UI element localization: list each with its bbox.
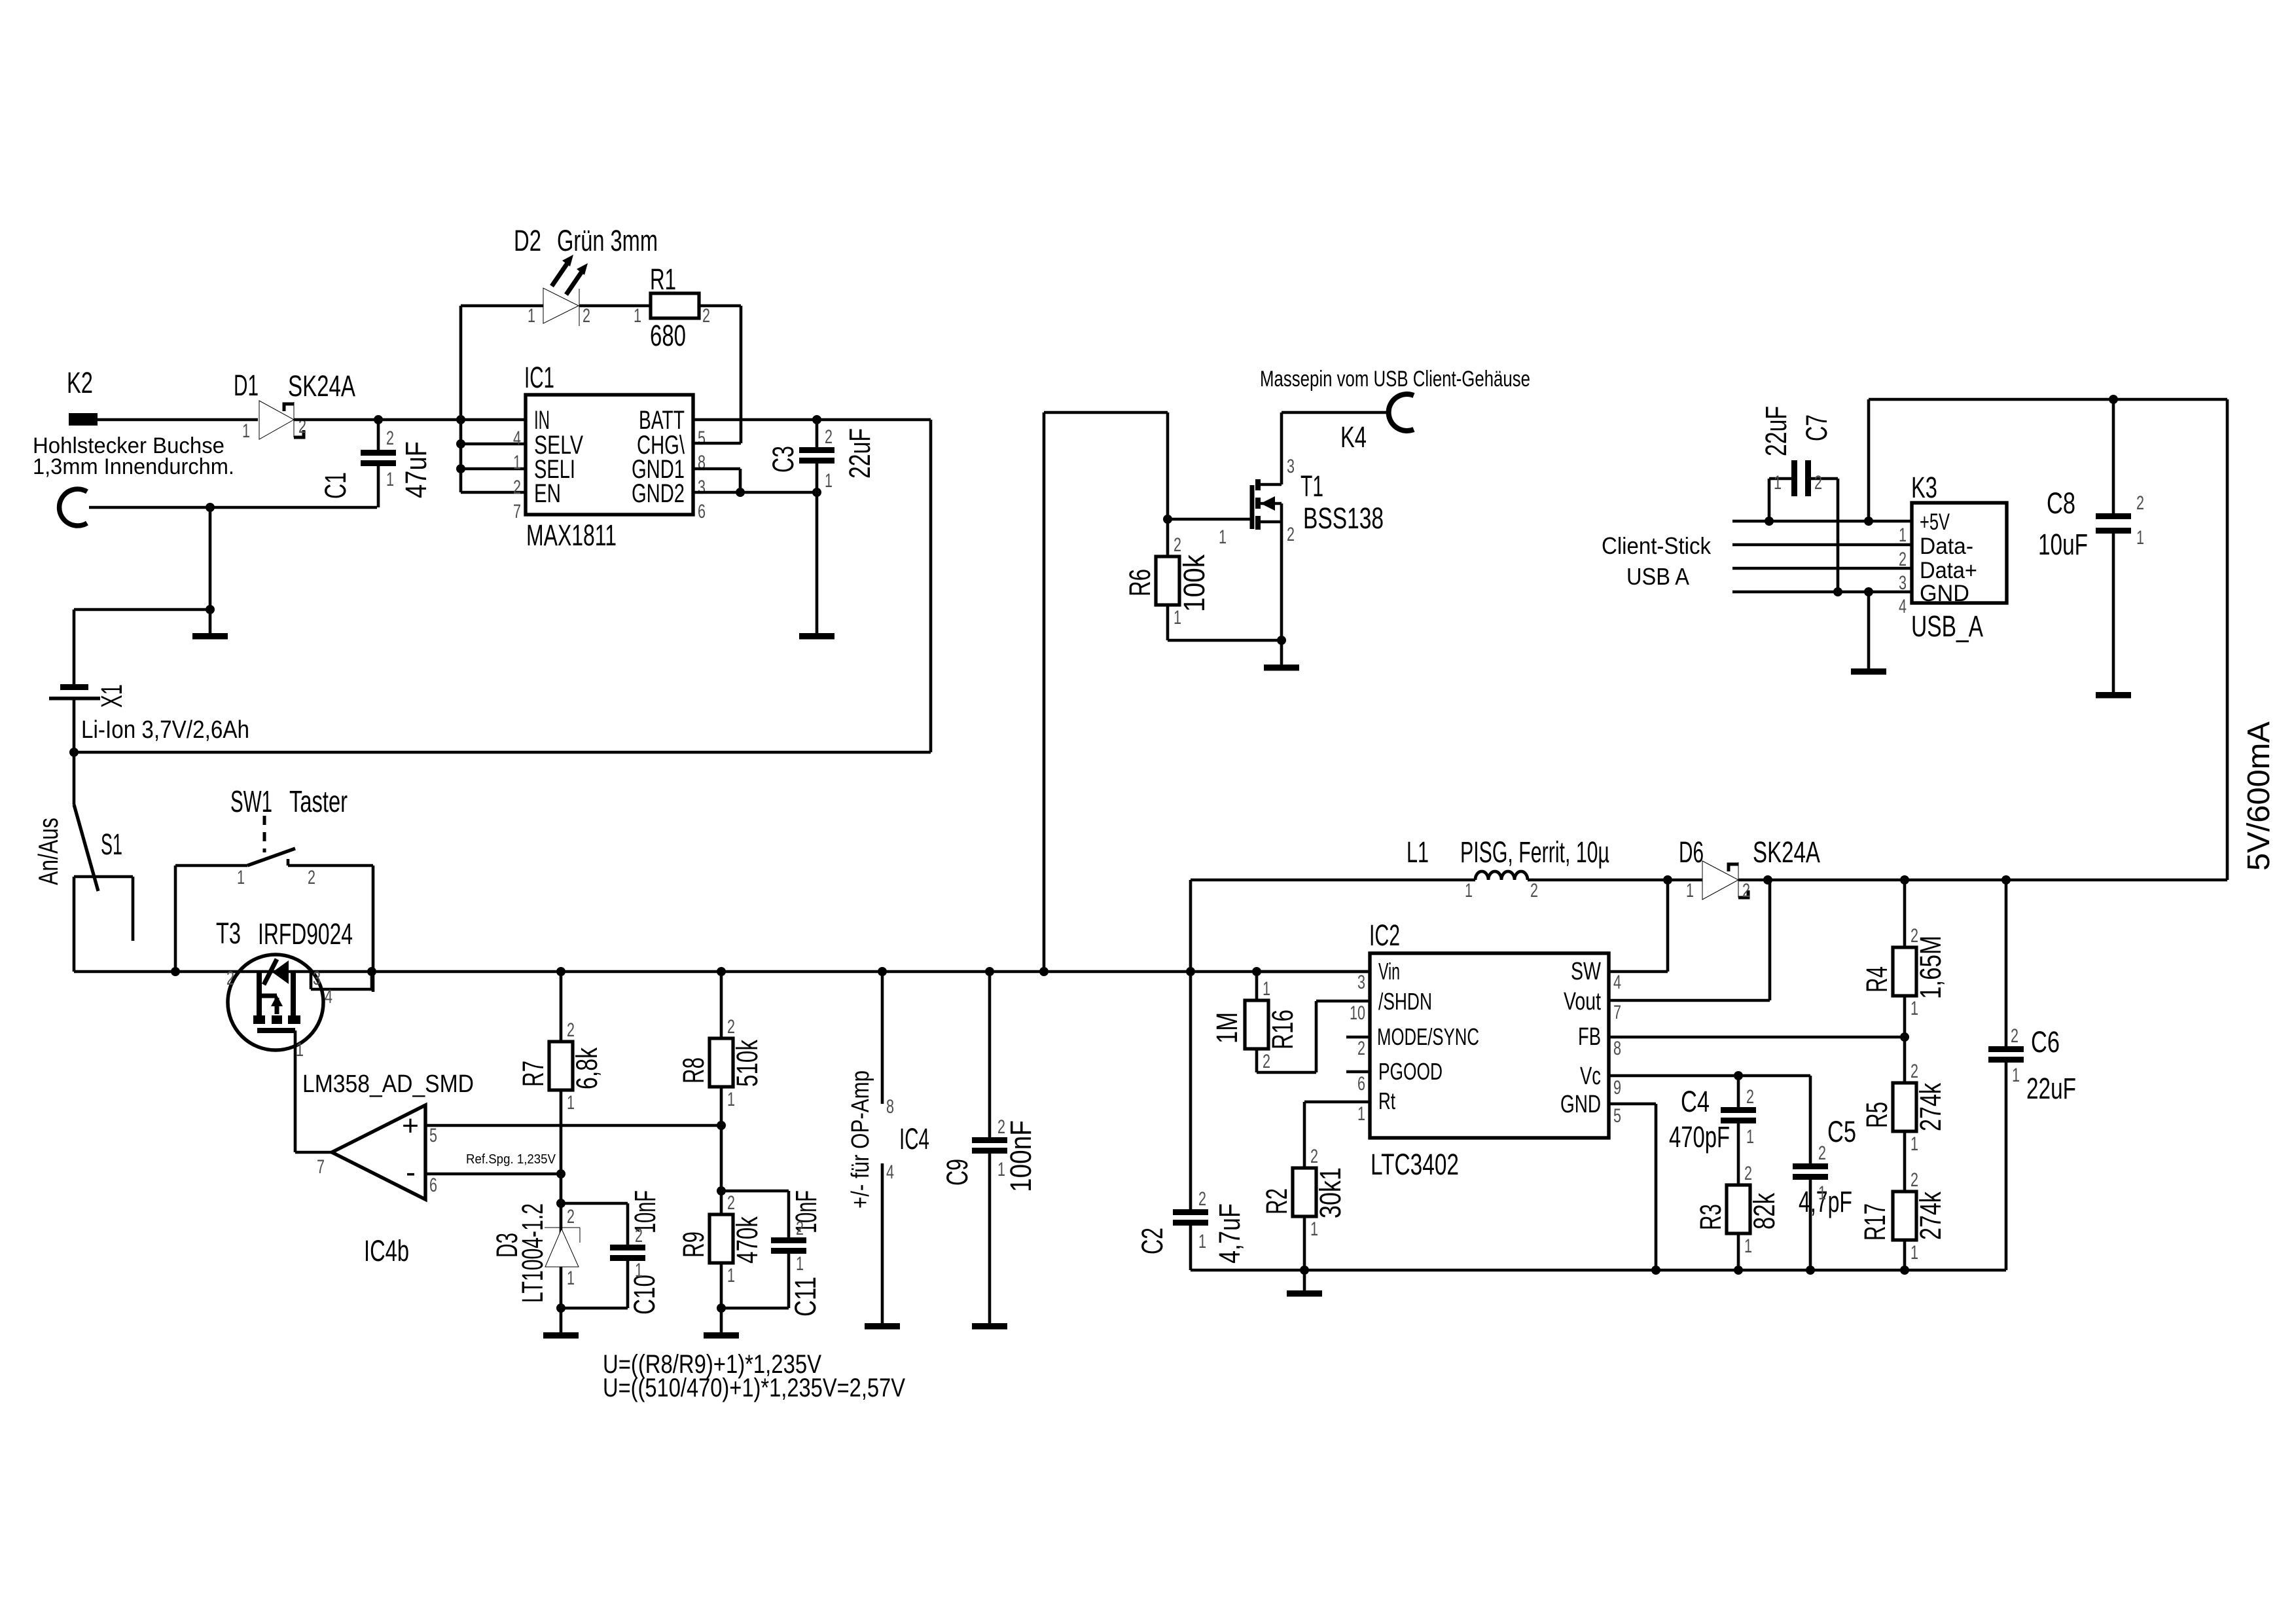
svg-text:GND2: GND2 — [632, 479, 685, 508]
svg-text:1: 1 — [1219, 526, 1227, 548]
svg-text:2: 2 — [1530, 880, 1538, 902]
junction T1 source/R6 — [1277, 636, 1286, 645]
svg-text:Massepin vom USB Client-Gehäus: Massepin vom USB Client-Gehäuse — [1260, 367, 1530, 392]
svg-text:Client-Stick: Client-Stick — [1602, 532, 1712, 559]
svg-text:2: 2 — [997, 1116, 1005, 1138]
svg-text:R6: R6 — [1123, 569, 1157, 596]
junction R9/C11 bottom — [717, 1304, 726, 1313]
wire SW1 left down — [174, 866, 177, 972]
wire jog up to SHDN — [1315, 1001, 1318, 1072]
junction rail IC2/C2 — [1186, 967, 1195, 976]
svg-text:/SHDN: /SHDN — [1378, 988, 1432, 1015]
wire R17 bottom — [1903, 1240, 1907, 1270]
wire SELI pin — [461, 467, 526, 471]
wire output to +5V pin — [1867, 399, 1871, 521]
svg-text:SK24A: SK24A — [1753, 835, 1820, 869]
svg-text:K3: K3 — [1911, 471, 1937, 504]
svg-text:Ref.Spg. 1,235V: Ref.Spg. 1,235V — [466, 1152, 556, 1167]
wire EN pin — [461, 491, 526, 494]
junction GND bottom rail — [1651, 1266, 1660, 1275]
junction battery / output rail — [69, 748, 79, 757]
wire PGOOD stub — [1346, 1070, 1370, 1074]
svg-text:+5V: +5V — [1920, 509, 1950, 535]
wire Vc to C5 — [1809, 1076, 1812, 1163]
junction Vout riser — [1763, 875, 1772, 884]
wire CHG pin — [693, 442, 741, 445]
svg-text:FB: FB — [1578, 1023, 1601, 1051]
wire output rail right — [2226, 399, 2229, 880]
svg-text:D2: D2 — [514, 224, 541, 257]
wire op-amp output — [295, 1151, 332, 1154]
svg-text:R8: R8 — [677, 1057, 710, 1084]
junction ground node — [206, 605, 215, 614]
svg-text:1: 1 — [825, 470, 833, 492]
svg-text:C8: C8 — [2047, 486, 2075, 520]
svg-text:1: 1 — [567, 1267, 575, 1289]
svg-text:D6: D6 — [1679, 835, 1704, 869]
svg-text:510k: 510k — [730, 1040, 764, 1087]
S1 blade — [74, 805, 98, 891]
wire CHG riser — [740, 306, 743, 443]
wire IN pin — [461, 418, 526, 422]
junction gate/R6 — [1163, 515, 1172, 524]
svg-text:2: 2 — [1910, 1061, 1918, 1082]
svg-text:1: 1 — [1310, 1218, 1318, 1240]
wire GND pin — [1609, 1103, 1656, 1106]
junction IN tie — [456, 415, 465, 424]
resistor R7 — [560, 972, 563, 1042]
svg-text:2: 2 — [2136, 492, 2144, 514]
svg-text:2: 2 — [386, 428, 394, 449]
svg-text:2: 2 — [1357, 1038, 1365, 1059]
svg-text:R7: R7 — [516, 1061, 550, 1087]
svg-text:Li-Ion 3,7V/2,6Ah: Li-Ion 3,7V/2,6Ah — [81, 716, 249, 744]
wire SW riser — [1666, 880, 1670, 972]
svg-text:10uF: 10uF — [2038, 528, 2088, 561]
svg-text:Data-: Data- — [1920, 534, 1973, 559]
svg-text:2: 2 — [1910, 1169, 1918, 1191]
svg-text:1,3mm Innendurchm.: 1,3mm Innendurchm. — [33, 454, 234, 479]
svg-text:2: 2 — [1310, 1146, 1318, 1167]
T1 gate bar — [1250, 485, 1255, 529]
svg-text:1: 1 — [1686, 880, 1694, 902]
wire down to gate node — [1166, 412, 1170, 519]
wire IC4 pin8 — [881, 972, 884, 1104]
wire C3 ground stem — [816, 492, 819, 633]
svg-text:22uF: 22uF — [2026, 1072, 2076, 1105]
svg-text:IC1: IC1 — [524, 361, 554, 394]
svg-text:EN: EN — [534, 479, 561, 508]
svg-text:4,7uF: 4,7uF — [1213, 1203, 1246, 1264]
wire IC4 pin4 — [881, 1163, 884, 1323]
svg-text:470pF: 470pF — [1669, 1120, 1730, 1154]
wire T3 pin3 jog down — [310, 972, 313, 989]
svg-text:Vc: Vc — [1580, 1063, 1601, 1090]
svg-text:LT1004-1.2: LT1004-1.2 — [516, 1203, 549, 1303]
junction R4 top — [1900, 875, 1909, 884]
wire K2 pad to D1 anode — [97, 418, 258, 422]
svg-text:1: 1 — [1910, 1133, 1918, 1155]
capacitor C11 — [721, 1190, 789, 1193]
wire BATT riser — [929, 420, 933, 752]
junction K3 ground — [1864, 587, 1873, 596]
svg-text:An/Aus: An/Aus — [33, 818, 63, 885]
junction rail R8 — [717, 967, 726, 976]
wire jack return to C1 — [89, 506, 377, 509]
wire R5 to R17 — [1903, 1131, 1907, 1192]
svg-text:2: 2 — [727, 1192, 735, 1214]
wire D2 to R1 — [579, 304, 651, 308]
resistor R1 — [651, 293, 699, 318]
junction C3 top — [812, 415, 821, 424]
svg-text:USB_A: USB_A — [1911, 610, 1983, 643]
junction FB/R4/R5 — [1900, 1032, 1909, 1042]
svg-text:274k: 274k — [1914, 1192, 1947, 1240]
junction C7 right — [1833, 587, 1842, 596]
svg-text:1: 1 — [1198, 1231, 1206, 1252]
resistor R6 — [1166, 519, 1170, 556]
svg-text:R2: R2 — [1260, 1188, 1293, 1214]
svg-text:R4: R4 — [1860, 966, 1893, 993]
svg-text:3: 3 — [313, 968, 321, 989]
svg-text:MODE/SYNC: MODE/SYNC — [1377, 1023, 1479, 1050]
wire Vc — [1609, 1074, 1810, 1078]
svg-text:5: 5 — [1613, 1105, 1621, 1127]
wire T1 drain up — [1280, 412, 1283, 484]
wire Vout pin — [1609, 999, 1770, 1002]
svg-text:Vout: Vout — [1564, 988, 1601, 1015]
wire R7 to ground node — [560, 1090, 563, 1308]
svg-text:+: + — [402, 1110, 419, 1142]
wire T3 gate to op-amp — [294, 1030, 297, 1152]
svg-text:3: 3 — [1357, 972, 1365, 993]
wire R6 bottom — [1166, 605, 1170, 640]
capacitor C10 — [561, 1202, 628, 1205]
wire GND1 to GND2 — [739, 469, 742, 492]
svg-text:LTC3402: LTC3402 — [1371, 1148, 1459, 1181]
wire S1 to rail — [73, 877, 76, 972]
svg-text:5: 5 — [429, 1125, 437, 1146]
svg-text:6,8k: 6,8k — [570, 1048, 603, 1089]
svg-text:2: 2 — [1263, 1051, 1270, 1072]
svg-text:SW1: SW1 — [230, 784, 272, 818]
IC IC1 MAX1811 box — [526, 395, 693, 515]
svg-text:274k: 274k — [1914, 1083, 1947, 1131]
wire ground to battery X1 — [73, 610, 76, 685]
wire R8 to R9 — [720, 1087, 723, 1214]
LED D2 — [543, 288, 579, 323]
svg-text:2: 2 — [567, 1206, 575, 1228]
svg-text:2: 2 — [567, 1019, 575, 1041]
svg-text:1: 1 — [296, 1039, 304, 1061]
junction SELI tie — [456, 464, 465, 473]
svg-text:2: 2 — [2011, 1025, 2018, 1047]
svg-text:4: 4 — [1899, 596, 1907, 617]
junction R17 bottom rail — [1900, 1266, 1909, 1275]
capacitor C1 — [377, 420, 380, 450]
wire D1 cathode to C1 node — [294, 418, 378, 422]
junction rail SW1/T3 — [367, 967, 376, 976]
svg-text:C3: C3 — [766, 446, 800, 473]
svg-text:1: 1 — [1899, 524, 1907, 546]
svg-text:1: 1 — [1818, 1182, 1826, 1204]
wire Vout riser — [1768, 880, 1772, 1000]
IC K3 USB_A box — [1912, 503, 2007, 603]
junction C6 top — [2001, 875, 2011, 884]
wire R6 to T1 source — [1168, 639, 1282, 642]
wire T3 pin3 jog right — [311, 988, 372, 991]
wire ground stem R2 — [1303, 1270, 1306, 1290]
wire GND1 pin — [693, 467, 740, 471]
svg-text:7: 7 — [1613, 1002, 1621, 1023]
wire GND2 to C3 — [693, 491, 817, 494]
svg-text:1M: 1M — [1210, 1012, 1244, 1044]
capacitor C4 — [1737, 1076, 1740, 1107]
wire to ground D3 — [560, 1308, 563, 1332]
wire output top — [1869, 398, 2227, 401]
svg-text:10nF: 10nF — [628, 1190, 662, 1233]
wire Data+ stub — [1732, 567, 1912, 570]
jack K2 contact arc — [60, 489, 87, 526]
svg-text:4: 4 — [325, 986, 332, 1008]
wire gate node to T1 gate — [1168, 518, 1252, 521]
svg-text:10: 10 — [1350, 1002, 1365, 1024]
wire R3 bottom — [1737, 1233, 1740, 1270]
svg-text:R17: R17 — [1858, 1203, 1892, 1241]
connector K2 pad — [69, 413, 98, 426]
resistor R5 — [1893, 1083, 1916, 1131]
capacitor C8 — [2112, 399, 2115, 513]
wire R16 bottom — [1255, 1049, 1259, 1072]
wire FB to divider — [1609, 1036, 1905, 1039]
wire down to ground node — [209, 507, 212, 610]
svg-text:1: 1 — [386, 469, 394, 490]
svg-text:X1: X1 — [95, 684, 128, 708]
wire to SHDN pin — [1316, 1000, 1370, 1003]
svg-text:R5: R5 — [1860, 1102, 1893, 1128]
S1 contact top — [74, 875, 133, 879]
resistor R9 — [709, 1214, 733, 1263]
svg-text:1: 1 — [513, 452, 521, 473]
svg-text:22uF: 22uF — [843, 428, 876, 479]
junction C4 top — [1734, 1071, 1743, 1080]
wire IN/SELV/SELI/EN tie — [459, 306, 463, 492]
svg-text:Rt: Rt — [1378, 1087, 1395, 1114]
svg-text:1: 1 — [635, 1260, 643, 1281]
svg-text:1: 1 — [1174, 607, 1181, 629]
IC IC2 LTC3402 box — [1370, 953, 1609, 1138]
svg-text:2: 2 — [1198, 1188, 1206, 1210]
junction rail IC4 — [878, 967, 887, 976]
junction - input / D3 — [556, 1169, 565, 1178]
junction + input / R8 R9 — [717, 1121, 726, 1130]
svg-text:U=((510/470)+1)*1,235V=2,57V: U=((510/470)+1)*1,235V=2,57V — [603, 1374, 905, 1402]
junction rail S1 — [171, 967, 180, 976]
svg-text:22uF: 22uF — [1759, 406, 1793, 456]
svg-text:SW: SW — [1571, 958, 1601, 985]
svg-text:C5: C5 — [1827, 1115, 1856, 1148]
svg-text:1: 1 — [242, 420, 250, 442]
junction jack return / ground — [206, 503, 215, 512]
svg-text:100nF: 100nF — [1004, 1120, 1037, 1192]
svg-text:2: 2 — [1174, 534, 1181, 556]
svg-text:2: 2 — [513, 477, 521, 498]
wire to IC1 branch node — [378, 418, 461, 422]
wire Vin to L1 — [1191, 879, 1475, 882]
connector K4 massepin arc — [1389, 394, 1414, 431]
svg-text:USB A: USB A — [1626, 563, 1689, 590]
wire MODE/SYNC stub — [1346, 1036, 1370, 1039]
junction +5V riser — [1864, 517, 1873, 526]
junction C7 left — [1765, 517, 1774, 526]
svg-text:R3: R3 — [1694, 1204, 1727, 1230]
SW1 right contact — [288, 864, 373, 867]
svg-text:7: 7 — [317, 1156, 325, 1178]
svg-text:Data+: Data+ — [1920, 558, 1977, 583]
wire R2 to bottom rail — [1303, 1216, 1306, 1270]
wire battery to S1 — [73, 700, 76, 805]
wire Rt pin — [1304, 1101, 1370, 1104]
svg-text:IC2: IC2 — [1369, 919, 1400, 952]
junction rail R16 — [1252, 967, 1261, 976]
svg-text:1: 1 — [528, 305, 535, 327]
wire L1 to D6 — [1528, 879, 1702, 882]
svg-text:R9: R9 — [677, 1231, 710, 1258]
svg-text:1: 1 — [1744, 1235, 1752, 1257]
wire GND down — [1655, 1104, 1658, 1270]
wire T3 pin3 jog up — [370, 972, 374, 989]
svg-text:Taster: Taster — [289, 784, 348, 818]
svg-text:6: 6 — [1357, 1073, 1365, 1095]
svg-text:R16: R16 — [1266, 1010, 1299, 1049]
svg-text:1: 1 — [1910, 1242, 1918, 1264]
SW1 left contact — [175, 864, 247, 867]
svg-text:680: 680 — [650, 319, 686, 352]
junction D3/C10 bottom — [556, 1304, 565, 1313]
svg-text:1: 1 — [237, 867, 245, 888]
svg-text:PISG, Ferrit, 10µ: PISG, Ferrit, 10µ — [1460, 835, 1609, 869]
junction SW node — [1663, 875, 1672, 884]
capacitor C6 — [2005, 880, 2008, 1046]
svg-text:C4: C4 — [1681, 1085, 1710, 1118]
wire rail to T1 branch riser — [1043, 412, 1046, 972]
wire Rt to R2 — [1303, 1102, 1306, 1168]
wire LED branch left — [461, 304, 543, 308]
wire SW1 right down — [372, 866, 375, 992]
svg-text:2: 2 — [1744, 1163, 1752, 1184]
svg-text:82k: 82k — [1748, 1193, 1781, 1230]
svg-text:C7: C7 — [1800, 414, 1833, 441]
svg-text:R1: R1 — [650, 263, 676, 296]
junction rail T1 branch — [1039, 967, 1049, 976]
wire T1 branch top — [1044, 411, 1168, 414]
resistor R3 — [1727, 1185, 1750, 1233]
svg-text:C2: C2 — [1136, 1228, 1169, 1254]
battery X1 — [60, 684, 88, 690]
svg-text:2: 2 — [1746, 1086, 1754, 1108]
wire R4 to R5 — [1903, 996, 1907, 1083]
svg-text:BSS138: BSS138 — [1303, 501, 1384, 535]
svg-text:IRFD9024: IRFD9024 — [258, 917, 353, 951]
svg-text:1: 1 — [1746, 1126, 1754, 1148]
wire R1 to CHG riser — [699, 304, 741, 308]
wire bottom ground rail — [1191, 1269, 2006, 1272]
svg-text:2: 2 — [825, 426, 833, 448]
SW1 blade — [247, 848, 295, 866]
svg-text:2: 2 — [226, 968, 234, 989]
svg-text:30k1: 30k1 — [1314, 1167, 1347, 1218]
wire BATT pin to riser — [693, 418, 931, 422]
svg-text:2: 2 — [796, 1218, 804, 1239]
svg-text:1: 1 — [1774, 472, 1782, 494]
svg-text:2: 2 — [1818, 1142, 1826, 1164]
junction rail C9 — [985, 967, 994, 976]
svg-text:8: 8 — [1613, 1038, 1621, 1059]
junction C5 bottom rail — [1806, 1266, 1815, 1275]
svg-text:1: 1 — [2012, 1065, 2020, 1086]
svg-text:1: 1 — [997, 1159, 1005, 1180]
svg-text:4: 4 — [513, 428, 521, 449]
svg-text:5V/600mA: 5V/600mA — [2242, 721, 2276, 871]
zener diode D3 LT1004-1.2 — [545, 1227, 580, 1228]
svg-text:1: 1 — [1465, 880, 1473, 902]
svg-text:MAX1811: MAX1811 — [526, 519, 617, 552]
svg-text:LM358_AD_SMD: LM358_AD_SMD — [302, 1070, 474, 1098]
svg-text:5: 5 — [698, 428, 706, 449]
diode D1 — [259, 401, 294, 439]
capacitor C7 — [1791, 460, 1797, 496]
svg-text:D1: D1 — [234, 369, 259, 402]
svg-text:2: 2 — [1910, 925, 1918, 947]
svg-text:Vin: Vin — [1378, 958, 1400, 985]
resistor R4 — [1903, 880, 1907, 947]
svg-text:47uF: 47uF — [399, 441, 433, 498]
svg-text:K2: K2 — [67, 366, 93, 399]
wire T1 source ground stem — [1280, 640, 1283, 665]
svg-text:1: 1 — [634, 305, 641, 327]
svg-text:S1: S1 — [101, 828, 122, 861]
svg-text:2: 2 — [1287, 524, 1295, 545]
svg-text:1: 1 — [1263, 978, 1270, 1000]
wire op-amp - input to reference — [425, 1173, 561, 1176]
wire op-amp + input to divider — [425, 1124, 721, 1127]
svg-text:1: 1 — [567, 1092, 575, 1114]
wire K3 ground stem — [1867, 592, 1871, 668]
svg-text:470k: 470k — [730, 1216, 764, 1264]
junction D3/C10 top — [556, 1199, 565, 1208]
svg-text:9: 9 — [1613, 1077, 1621, 1099]
wire R16 jog — [1257, 1071, 1316, 1074]
svg-text:+/- für OP-Amp: +/- für OP-Amp — [847, 1070, 874, 1209]
wire Data- stub — [1732, 543, 1912, 547]
svg-text:2: 2 — [727, 1016, 735, 1038]
wire T1 source down — [1280, 503, 1283, 640]
svg-text:3: 3 — [698, 477, 706, 498]
junction R2 ground — [1300, 1266, 1309, 1275]
svg-text:1: 1 — [727, 1265, 735, 1286]
resistor R17 — [1893, 1192, 1916, 1240]
svg-text:2: 2 — [308, 867, 315, 888]
svg-text:T3: T3 — [216, 917, 241, 950]
svg-text:GND: GND — [1560, 1091, 1601, 1118]
svg-text:C10: C10 — [628, 1275, 661, 1315]
resistor R8 — [720, 972, 723, 1038]
svg-text:C9: C9 — [941, 1159, 974, 1186]
wire Vin riser / C2 top — [1189, 880, 1193, 1209]
svg-text:-: - — [406, 1155, 416, 1189]
junction R9/C11 top — [717, 1186, 726, 1195]
junction C1 top — [374, 415, 383, 424]
